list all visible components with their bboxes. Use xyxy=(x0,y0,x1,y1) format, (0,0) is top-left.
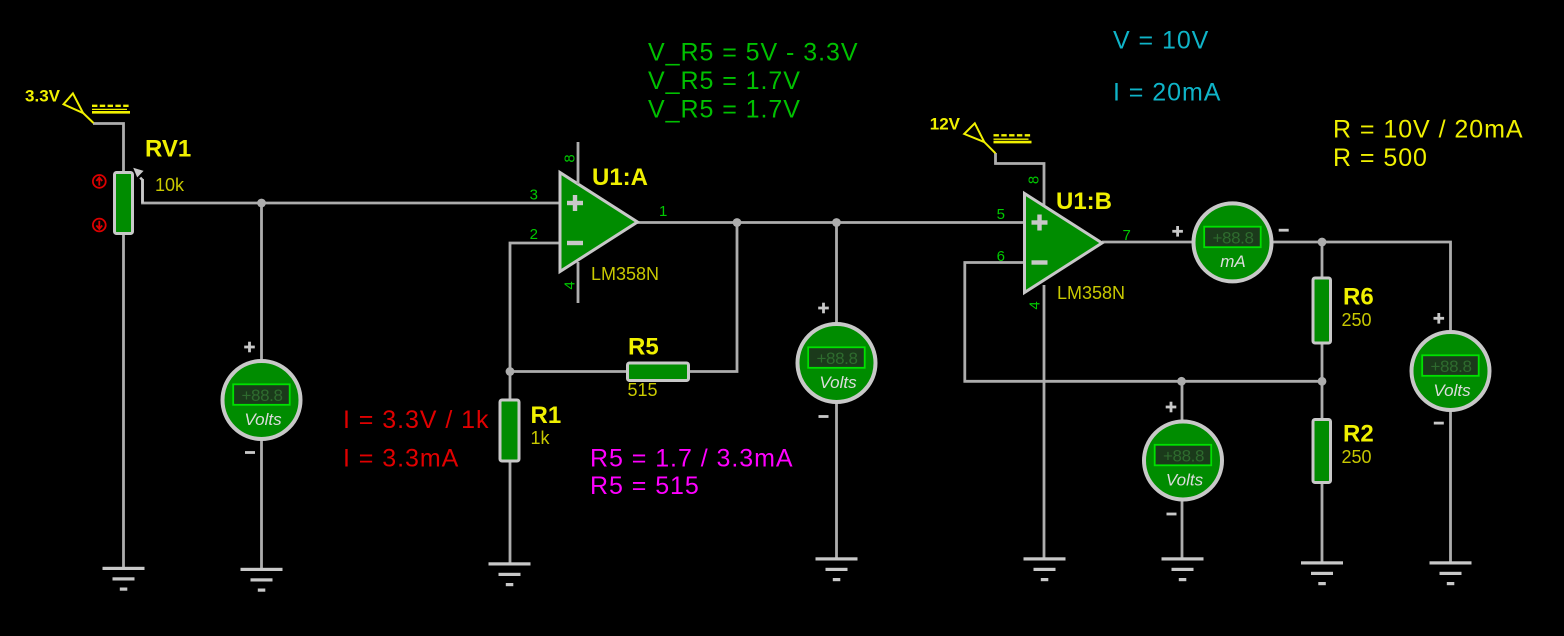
op-amp U1:A minus input mark xyxy=(567,241,583,245)
wire node to voltmeter VM1 to ground xyxy=(260,203,263,569)
wire feedback R5 row xyxy=(510,223,737,372)
svg-text:R5 = 515: R5 = 515 xyxy=(590,472,700,500)
potentiometer RV1 wiper arrow xyxy=(140,178,142,203)
svg-text:515: 515 xyxy=(628,380,658,400)
svg-text:V_R5 = 5V - 3.3V: V_R5 = 5V - 3.3V xyxy=(648,39,858,67)
VM3 plus mark xyxy=(1166,402,1177,413)
svg-text:250: 250 xyxy=(1342,447,1372,467)
voltmeter VM2 xyxy=(798,324,876,402)
voltmeter VM1 xyxy=(223,361,301,439)
VM2 plus mark xyxy=(818,303,829,314)
wire to right voltmeter VM4 xyxy=(1322,242,1451,563)
ground 4 xyxy=(816,557,858,581)
wire R1 to ground xyxy=(509,372,512,565)
svg-text:V = 10V: V = 10V xyxy=(1113,27,1209,55)
VM2 minus mark xyxy=(819,415,829,418)
svg-text:+88.8: +88.8 xyxy=(241,386,282,405)
svg-text:+88.8: +88.8 xyxy=(1212,229,1253,248)
svg-text:12V: 12V xyxy=(930,115,961,134)
svg-text:I = 3.3V / 1k: I = 3.3V / 1k xyxy=(343,406,489,434)
node VM3 junction xyxy=(1177,377,1186,386)
svg-text:Volts: Volts xyxy=(1166,471,1204,490)
svg-text:5: 5 xyxy=(997,206,1005,223)
resistor R1 body xyxy=(500,400,519,461)
RV1 up actuator xyxy=(93,175,106,188)
potentiometer RV1 body xyxy=(115,173,133,234)
node A junction xyxy=(257,199,266,208)
svg-text:U1:A: U1:A xyxy=(592,164,648,191)
svg-text:V_R5 = 1.7V: V_R5 = 1.7V xyxy=(648,67,801,95)
op-amp U1:A plus input mark xyxy=(567,195,583,211)
svg-text:R1: R1 xyxy=(531,402,562,429)
op-amp U1:B minus input mark xyxy=(1032,260,1048,264)
node R6 R2 junction xyxy=(1318,377,1327,386)
wire VM2 to ground xyxy=(835,223,838,559)
svg-text:mA: mA xyxy=(1220,252,1246,271)
op-amp U1:B body xyxy=(1025,194,1103,293)
svg-text:RV1: RV1 xyxy=(145,136,191,163)
wire U1:B pin 4 to ground xyxy=(1043,285,1046,559)
svg-text:+88.8: +88.8 xyxy=(816,349,857,368)
svg-text:8: 8 xyxy=(1026,176,1043,184)
resistor R2 body xyxy=(1313,420,1331,483)
node output junction xyxy=(733,218,742,227)
svg-text:R = 10V / 20mA: R = 10V / 20mA xyxy=(1333,116,1523,144)
svg-text:U1:B: U1:B xyxy=(1056,188,1112,215)
svg-text:R = 500: R = 500 xyxy=(1333,144,1428,172)
svg-text:Volts: Volts xyxy=(1433,381,1471,400)
svg-text:7: 7 xyxy=(1123,227,1131,244)
voltmeter VM3 xyxy=(1144,422,1222,500)
AM1 minus mark xyxy=(1279,229,1289,232)
svg-text:4: 4 xyxy=(562,281,579,289)
svg-text:R5 = 1.7 / 3.3mA: R5 = 1.7 / 3.3mA xyxy=(590,445,794,473)
wire R6 branch xyxy=(1321,242,1324,381)
svg-text:1: 1 xyxy=(659,203,667,220)
VM3 minus mark xyxy=(1167,513,1177,516)
svg-text:2: 2 xyxy=(530,226,538,243)
svg-text:Volts: Volts xyxy=(819,373,857,392)
svg-text:LM358N: LM358N xyxy=(1057,283,1125,303)
svg-text:3.3V: 3.3V xyxy=(25,87,61,106)
wire U1:A output to U1:B pin 5 xyxy=(637,221,1025,224)
svg-text:4: 4 xyxy=(1027,301,1044,309)
svg-text:I = 20mA: I = 20mA xyxy=(1113,79,1221,107)
U1:A pin 8 stub xyxy=(577,142,580,184)
VM1 minus mark xyxy=(245,451,255,454)
wire RV1 wiper to U1:A pin 3 xyxy=(143,179,561,203)
wire VM3 to ground xyxy=(1181,381,1184,558)
resistor R6 body xyxy=(1313,278,1331,343)
svg-text:R5: R5 xyxy=(628,334,659,361)
svg-text:V_R5 = 1.7V: V_R5 = 1.7V xyxy=(648,96,801,124)
VM4 minus mark xyxy=(1434,422,1444,425)
op-amp U1:A body xyxy=(560,173,638,272)
wire 12V terminal to U1:B pin 8 xyxy=(996,153,1045,205)
node ammeter out junction xyxy=(1318,238,1327,247)
op-amp U1:B plus input mark xyxy=(1032,215,1048,231)
svg-text:R2: R2 xyxy=(1343,421,1374,448)
svg-text:+88.8: +88.8 xyxy=(1163,447,1204,466)
ground 8 xyxy=(1430,561,1472,585)
ground 5 xyxy=(1024,557,1066,581)
voltmeter VM4 xyxy=(1412,332,1490,410)
wire 3.3V terminal to RV1 top xyxy=(93,124,124,173)
wire U1:A pin 2 to feedback xyxy=(510,243,560,372)
svg-text:R6: R6 xyxy=(1343,284,1374,311)
RV1 down actuator xyxy=(93,219,106,232)
ground 6 xyxy=(1162,557,1204,581)
wire R2 to ground xyxy=(1321,381,1324,562)
wire U1:B pin 6 feedback loop xyxy=(965,263,1322,382)
wire RV1 bottom to ground xyxy=(122,234,125,568)
ammeter AM1 xyxy=(1194,203,1272,281)
AM1 plus mark xyxy=(1172,226,1183,237)
ground 7 xyxy=(1301,561,1343,585)
svg-text:250: 250 xyxy=(1342,310,1372,330)
svg-text:8: 8 xyxy=(562,154,579,162)
svg-text:+88.8: +88.8 xyxy=(1430,357,1471,376)
ground 2 xyxy=(241,568,283,592)
ground 3 xyxy=(489,562,531,586)
U1:A pin 4 stub xyxy=(577,262,580,303)
power terminal 3.3V xyxy=(25,87,130,124)
svg-text:LM358N: LM358N xyxy=(591,264,659,284)
wire U1:B output through ammeter xyxy=(1102,241,1322,244)
ground 1 xyxy=(103,567,145,591)
VM4 plus mark xyxy=(1434,313,1445,324)
svg-text:3: 3 xyxy=(530,187,538,204)
power terminal 12V xyxy=(930,115,1032,154)
VM1 plus mark xyxy=(244,342,255,353)
node feedback junction xyxy=(506,367,515,376)
node VM2 junction xyxy=(832,218,841,227)
svg-text:10k: 10k xyxy=(155,175,185,195)
svg-text:Volts: Volts xyxy=(244,410,282,429)
svg-text:1k: 1k xyxy=(531,428,551,448)
svg-text:6: 6 xyxy=(997,248,1005,265)
resistor R5 body xyxy=(628,363,689,381)
svg-text:I = 3.3mA: I = 3.3mA xyxy=(343,445,459,473)
